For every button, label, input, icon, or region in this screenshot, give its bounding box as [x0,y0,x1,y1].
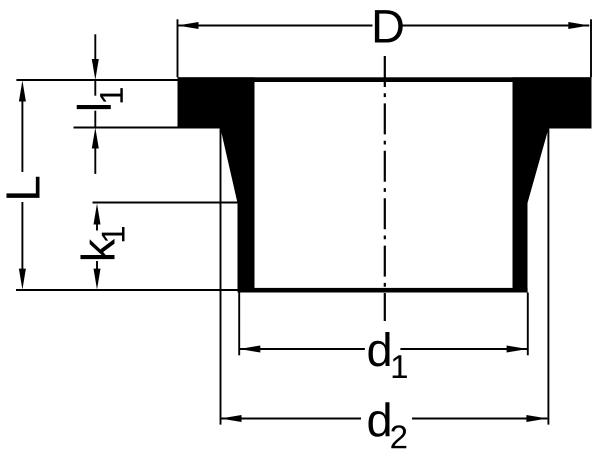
label k1 rotated [80,227,124,259]
ext line flange top left [16,79,178,81]
arrow D right [568,22,589,29]
bottom edge [238,288,528,293]
dim L line upper [21,98,23,172]
ext line d1 right [527,293,529,356]
arrow l1 down [92,59,99,80]
dim line d2 [221,418,362,420]
arrow d2 left [221,415,242,422]
k1 lower tail [96,261,98,269]
label L rotated [6,177,39,198]
left wall [221,129,255,293]
label l1 rotated [77,88,123,109]
label d2 [368,402,389,437]
arrow L up [19,81,26,102]
arrow d2 right [526,415,547,422]
l1 stub below ext [94,80,96,96]
ext line d2 right [547,129,549,425]
dim l1 top segment [94,34,96,62]
flange right block [513,77,592,128]
arrow k1 down [94,269,101,290]
arrow l1 up [92,128,99,149]
dim L line lower [21,202,23,270]
ext line d2 left [220,129,222,425]
dim line D [178,25,373,27]
ext line D right [590,19,592,77]
centerline [384,56,386,321]
ext line bottom left [16,289,238,291]
arrow L down [19,269,26,290]
ext line flange bottom left [74,127,180,129]
label D [375,10,403,42]
label d1 [368,332,389,367]
dim line d1 [239,348,365,350]
ext line d1 left [238,293,240,356]
ext line D left [177,19,179,77]
ext line k1 top [93,202,240,204]
arrow k1 up [94,204,101,225]
arrow d1 left [239,346,260,353]
l1 tail [94,146,96,174]
arrow d1 right [507,346,528,353]
l1 lower stub [94,111,96,128]
k1 upper tail [96,222,98,231]
arrow D left [178,22,199,29]
flange top edge [178,77,592,82]
flange left block [178,77,255,128]
right wall [513,129,549,293]
